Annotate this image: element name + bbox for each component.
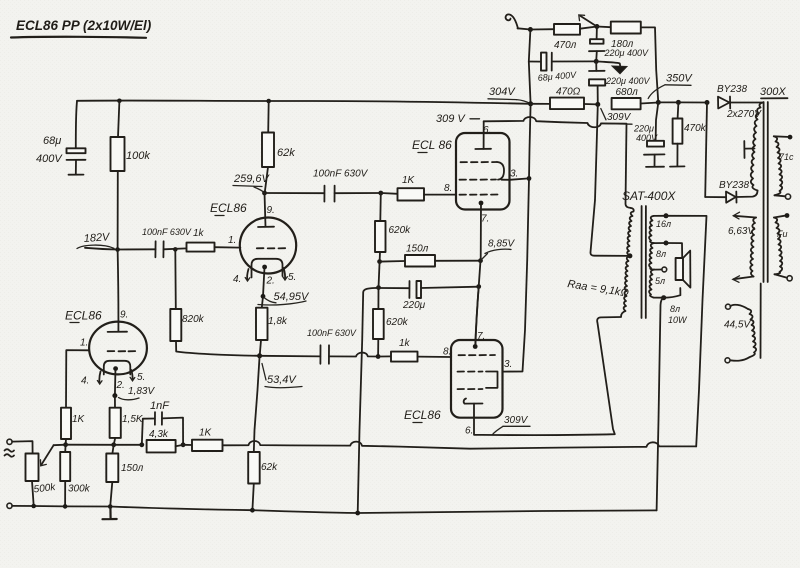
wiper arrow [581,16,597,27]
svg-text:SAT-400X: SAT-400X [622,189,676,203]
capacitor C 220u (cathode bypass upper) [379,281,479,311]
svg-text:5л: 5л [655,276,665,286]
power transformer core [763,102,765,282]
svg-text:9.: 9. [120,310,128,321]
node: 1,83V junction [112,393,117,398]
secondary winding (right top) [774,135,794,199]
label 309V (rail) [601,109,632,125]
resistor R 1k (upper grid stopper) [187,228,241,252]
label 259,6V [233,173,271,193]
capacitor C 1nF [114,400,183,445]
node: primary center tap [627,253,632,258]
capacitor C 100nF 630V (input, left) [142,227,192,257]
svg-text:53,4V: 53,4V [267,374,297,386]
capacitor C 100nF 630V (upper coupling) [265,169,381,202]
speaker 8 ohm 10W [664,243,691,325]
capacitor C 68u 400V (pot bias) [529,53,596,83]
node: 8 ohm tap [654,242,666,244]
svg-text:2.: 2. [116,380,125,391]
resistor R 150 ohm (bottom) [106,445,143,507]
capacitor C 220u (filter near 680) [633,102,665,166]
OT secondary winding [649,216,654,298]
resistor R 470 ohm (pot section a) [530,24,597,51]
node: rail junction at 62k [266,99,271,104]
wire cap to 1k [164,247,187,250]
resistor R 470k (bleeder) [670,102,707,166]
svg-text:44,5V: 44,5V [724,320,751,331]
wire with hop over ground branch [329,353,378,357]
svg-text:6.: 6. [483,125,491,136]
cathode dot [479,201,484,206]
node: rail B+ junction (screen bus) [528,101,533,106]
tube V2a ECL86 pentode (upper right, rounded box) [412,121,518,224]
label 8,85V [482,239,516,260]
svg-text:4.: 4. [81,376,89,387]
node: junction 1,5k/150 [111,442,116,447]
wire: secondary bottom to ground rail [657,298,664,511]
svg-text:470Ω: 470Ω [556,87,581,98]
node: rectifier output junction [705,100,710,105]
bottom terminal [7,503,12,508]
screen bracket rows 2-3 [486,372,498,388]
wire: 182V input node [77,231,156,249]
svg-text:100nF 630V: 100nF 630V [313,169,369,180]
node: cap column junction [594,59,599,64]
node: pot left junction [528,27,533,32]
node: junction 100k / pin9 branch [115,247,120,252]
heater pin 4 arrow [247,269,248,281]
svg-text:ECL86: ECL86 [210,201,247,215]
label 309V (lower anode) [493,415,531,435]
title ECL86 PP (2x10W/El) [11,18,152,38]
svg-text:9.: 9. [267,205,275,216]
grid dashes [257,247,285,249]
svg-text:1K: 1K [72,414,86,425]
wire: pin7 chain (upper tube cathode string) [476,204,482,347]
svg-text:4,3k: 4,3k [149,429,169,440]
svg-text:1.: 1. [80,338,88,349]
svg-text:6,63V: 6,63V [728,226,755,237]
svg-text:220μ 400V: 220μ 400V [605,76,650,86]
wire: lower cathode to junction [114,371,117,396]
svg-text:ECL86: ECL86 [65,309,102,323]
svg-text:309V: 309V [504,415,529,426]
node: rail junction at 100k [117,99,122,104]
node: 470/680 junction [595,102,600,107]
svg-text:100nF 630V: 100nF 630V [307,328,357,338]
grid dashes [461,161,498,163]
node: 16 ohm tap [654,215,666,217]
cathode envelope [252,259,283,278]
node: junction 1k/300k/wiper [63,442,68,447]
svg-text:68μ: 68μ [43,135,61,147]
wire: bottom ground rail [12,506,657,513]
label 1,83V [119,386,156,400]
svg-text:3.: 3. [504,359,512,370]
wire rail to rectifier [658,101,707,103]
resistor R 1k (lower grid stopper) [378,338,451,362]
ground arrow (chassis) [596,61,620,66]
node: junction cap / 620k / 1K [378,191,383,196]
label 300X power transformer [760,86,788,98]
tube V1a ECL86 triode (upper left, circle) [210,193,296,287]
tube V1b ECL86 triode (lower left, circle) [65,250,147,392]
node: junction 220u/620k/ground branch [376,285,381,290]
svg-text:7.: 7. [477,331,485,342]
resistor R 620k (lower divider) [373,288,409,357]
svg-text:BY238: BY238 [719,180,749,191]
svg-text:470л: 470л [554,40,577,51]
svg-text:4.: 4. [233,274,241,285]
pin 6 plate bar [475,148,491,150]
resistor R 620k (upper divider top) [375,193,411,262]
svg-text:309V: 309V [607,112,632,123]
svg-text:62k: 62k [261,462,278,473]
svg-text:304V: 304V [489,86,516,98]
capacitor C 220u 400V (lower, el-cap) [589,61,650,104]
svg-text:680л: 680л [616,87,639,98]
wire: lower anode to OT primary bottom [474,317,621,435]
wire: lower triode grid to 1k [66,350,89,408]
secondary winding (right bottom) [774,213,792,281]
svg-text:16л: 16л [656,219,671,229]
wire: vertical 150-junction to 220u junction [379,262,380,288]
label 53,4V [262,364,302,388]
wire: ground branch from 220u node down to bottom rail [358,288,379,513]
potentiometer R 500k [26,445,66,506]
resistor R 62k (feedback leg) [248,452,278,510]
svg-text:1.: 1. [228,235,236,246]
svg-text:220μ: 220μ [633,124,654,134]
svg-text:309 V: 309 V [436,113,466,125]
svg-text:5.: 5. [288,272,296,283]
svg-text:8л: 8л [656,249,666,259]
svg-text:182V: 182V [83,231,111,245]
svg-text:259,6V: 259,6V [233,173,271,185]
svg-text:ECL86: ECL86 [404,408,441,422]
node: junction 220u / pin7 wire [476,284,481,289]
node: junction 150 / pin7 [478,258,483,263]
svg-text:71c: 71c [779,152,794,162]
resistor R 820k [170,250,259,356]
svg-text:2.: 2. [266,276,275,287]
node: 680 right junction [656,100,661,105]
node: 1nF right junction [181,442,186,447]
svg-text:1K: 1K [402,175,416,186]
wire: wiper hook (top) [506,14,518,28]
node: 1nF left junction [139,442,144,447]
cathode node [262,265,267,270]
label 304V [488,86,530,103]
tube V2b ECL86 pentode (lower right, rounded box) [404,287,512,437]
svg-text:3.: 3. [510,169,518,180]
node: junction cap / 1k / 820k [173,247,178,252]
anode bar with hook [464,399,483,404]
label 54,95V [258,291,310,305]
svg-text:8.: 8. [444,183,452,194]
node: junction 620k/150 [377,259,382,264]
label 350V [648,73,693,99]
resistor R 1,8k (upper cathode) [256,308,288,356]
resistor R 1,5k (triode cathode) [110,396,144,445]
svg-text:1,5K: 1,5K [122,414,144,425]
wire: upper cathode down to 1.8k [262,269,265,308]
svg-text:470k: 470k [684,123,707,134]
wire: feedback line with hops [223,441,697,449]
resistor R 100k [111,101,151,250]
svg-text:1k: 1k [193,228,205,239]
resistor R 4,3k [147,429,184,452]
svg-text:1K: 1K [199,428,213,439]
svg-text:1k: 1k [399,338,411,349]
node: pot right junction [594,24,599,29]
svg-text:62k: 62k [277,147,295,159]
wire: top B+ rail [77,101,531,104]
svg-text:5.: 5. [137,372,145,383]
diode BY238 (upper) [717,84,763,120]
input terminal (top) [5,439,33,457]
capacitor C 100nF 630V (lower coupling) [260,328,379,364]
node: secondary bottom [654,297,664,299]
svg-text:150л: 150л [121,463,144,474]
svg-text:1,8k: 1,8k [268,316,288,327]
node: 54,95V measuring point [261,294,266,299]
node: rail dots [31,504,36,509]
pin 7 cathode dot [473,344,478,349]
node: junction 620k bottom [376,354,381,359]
node: 53,4V junction [257,353,262,358]
resistor R 470 ohm (rail dropper) [531,87,598,110]
svg-text:350V: 350V [666,73,693,85]
node: 470k junction [676,100,681,105]
svg-text:220μ: 220μ [402,300,426,311]
diode BY238 (lower) [705,103,757,203]
resistor R 180 ohm [597,22,658,103]
resistor R 1K (triode grid leak) [61,408,86,445]
svg-text:1,83V: 1,83V [128,386,155,397]
svg-text:300X: 300X [760,86,786,98]
OT primary winding [621,208,634,317]
svg-text:220μ 400V: 220μ 400V [604,48,649,58]
wire: pin3 to screen bus [510,178,530,179]
wire: right edge vertical [760,284,762,359]
wire: 62k branch down through hop [254,356,260,452]
svg-text:100k: 100k [126,150,150,162]
winding 44,5V [724,304,756,363]
svg-text:400V: 400V [36,153,63,165]
HV center tap [746,148,755,150]
node: screen bus junction [527,176,532,181]
svg-text:300k: 300k [68,484,91,495]
svg-text:820k: 820k [182,314,205,325]
node: 5 ohm tap (open) [654,269,662,271]
wire: 16 ohm tap to feedback vertical [666,216,707,447]
wire: screen bus vertical (530) [503,30,531,372]
svg-text:620k: 620k [386,317,409,328]
wire: upper anode (309V) to OT primary top, hops over verticals [484,117,631,208]
output transformer core [641,206,643,318]
wire y445 300k-junction to 150-junction [66,444,114,446]
svg-text:ECL 86: ECL 86 [412,138,452,152]
svg-text:100nF 630V: 100nF 630V [142,227,192,237]
svg-text:620k: 620k [389,225,412,236]
svg-text:ECL86 PP (2x10W/El): ECL86 PP (2x10W/El) [16,18,152,33]
resistor R 1K (feedback divider) [183,428,222,452]
svg-text:Fu: Fu [777,229,788,239]
svg-text:8л: 8л [670,304,680,314]
svg-text:7.: 7. [481,214,489,225]
grid dashes [459,354,496,356]
ground symbol [103,507,117,520]
screen bracket rows 1-2 [497,162,504,180]
resistor R 300k [60,445,90,507]
svg-text:6.: 6. [465,426,473,437]
wire: B+ screen node down to center tap [590,104,629,256]
svg-text:150л: 150л [406,244,429,255]
resistor R 62k (upper anode load) [262,101,295,193]
heater pin 5 arrow [284,268,286,280]
svg-text:8.: 8. [443,347,451,358]
resistor R 680 ohm (rail dropper) [612,87,659,109]
svg-text:1nF: 1nF [150,400,170,412]
resistor R 150 ohm (bias upper) [380,244,481,267]
svg-text:10W: 10W [668,315,688,325]
label 309 V (screen/anode wire) [436,113,480,125]
heater winding 6,3V with arrows [728,212,756,282]
svg-text:8,85V: 8,85V [488,239,515,250]
resistor R 1K (upper pentode grid stopper) [381,175,456,201]
capacitor C 68u 400V (left filter) [36,101,86,175]
power transformer HV winding 2x270V [744,103,763,191]
node: 259,6V junction [262,191,267,196]
capacitor C 220u 400V (upper, el-cap) [589,27,649,62]
svg-text:BY238: BY238 [717,84,747,95]
